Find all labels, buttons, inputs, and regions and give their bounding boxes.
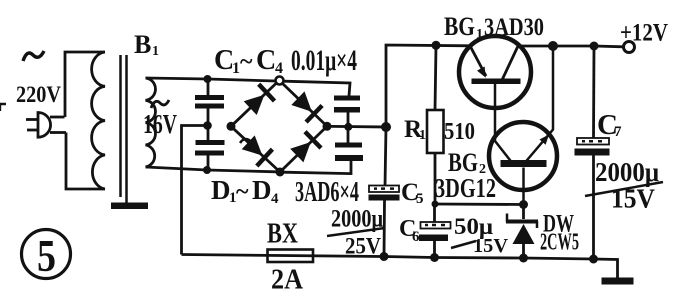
- transformer B1 secondary winding: [146, 78, 156, 167]
- capacitor C2: [207, 126, 210, 141]
- transistor BG2 base bar: [501, 160, 547, 167]
- svg-text:5: 5: [37, 230, 56, 281]
- wire plug to primary top terminal: [50, 116, 65, 119]
- zener diode DW: [522, 205, 525, 220]
- node C7 bottom: [589, 255, 598, 264]
- node R1/C6 junction: [432, 201, 439, 208]
- svg-text:+12V: +12V: [620, 18, 668, 47]
- node bottom cap junction: [203, 166, 211, 174]
- bridge edge top-right wire: [282, 83, 327, 126]
- svg-text:4: 4: [271, 191, 279, 207]
- capacitor C4: [347, 127, 350, 143]
- node riser junction: [381, 122, 391, 132]
- AC source tilde symbol: [23, 51, 44, 61]
- svg-text:4: 4: [275, 60, 283, 77]
- fraction bar C7: [585, 182, 663, 196]
- svg-text:BX: BX: [267, 219, 298, 250]
- wire bridge top node to C3: [284, 81, 351, 96]
- transistor BG1 base bar: [472, 79, 521, 85]
- terminal +12V: [624, 42, 635, 53]
- node C5 bottom: [380, 252, 389, 261]
- svg-text:6: 6: [412, 229, 420, 245]
- svg-text:15V: 15V: [611, 184, 655, 214]
- svg-text:2A: 2A: [271, 265, 303, 296]
- transistor BG2 emitter wire from BG1 collector rail: [525, 46, 553, 163]
- node bridge right: [323, 122, 332, 131]
- scan artifact left edge: [0, 104, 6, 111]
- transistor BG1 emitter: [470, 46, 486, 76]
- svg-text:15V: 15V: [473, 236, 508, 257]
- fuse BX: [268, 250, 314, 263]
- diode D1: [244, 95, 265, 115]
- node C6 bottom: [430, 253, 439, 262]
- transformer B1 primary winding: [65, 52, 105, 189]
- svg-text:1: 1: [152, 44, 159, 59]
- secondary tilde symbol: [151, 100, 169, 108]
- capacitor C3: [334, 96, 360, 101]
- transistor BG1 collector: [503, 46, 519, 79]
- transistor BG2 circle: [489, 122, 557, 190]
- bottom negative rail: [182, 255, 618, 279]
- capacitor C6: [433, 204, 436, 222]
- svg-text:1: 1: [419, 128, 426, 143]
- bridge edge left-top wire: [231, 83, 277, 127]
- node top cap junction: [204, 75, 212, 83]
- fraction bar C6: [451, 241, 476, 248]
- wire R1 bottom to zener node: [435, 203, 524, 206]
- wire positive riser and top rail: [386, 45, 470, 127]
- node zener bottom: [519, 254, 528, 263]
- resistor R1: [435, 45, 436, 110]
- svg-text:7: 7: [614, 124, 622, 140]
- node bridge top (open): [276, 77, 284, 85]
- node BG2 emitter junction: [548, 41, 558, 51]
- svg-text:1: 1: [476, 27, 483, 42]
- node bridge left: [227, 122, 236, 131]
- svg-text:3AD6×4: 3AD6×4: [295, 177, 359, 208]
- diode D2: [291, 91, 312, 111]
- svg-text:D: D: [252, 175, 272, 205]
- plug prong lower: [27, 129, 38, 132]
- bridge edge bottom-right wire: [280, 126, 327, 172]
- wire BG1 base to BG2 collector: [495, 84, 512, 162]
- svg-text:5: 5: [416, 191, 424, 207]
- svg-text:BG: BG: [444, 12, 475, 41]
- svg-text:510: 510: [444, 119, 475, 145]
- plug P1 body: [38, 113, 51, 138]
- figure number circle 5: [22, 230, 71, 279]
- capacitor C1: [207, 79, 210, 96]
- node R1 top junction: [432, 41, 441, 50]
- svg-text:2CW5: 2CW5: [540, 229, 579, 256]
- svg-text:B: B: [134, 30, 151, 59]
- node bridge bottom: [276, 168, 285, 177]
- svg-text:16V: 16V: [143, 109, 177, 139]
- wire plug to primary bottom terminal: [50, 131, 66, 134]
- node left mid junction: [203, 121, 212, 130]
- transistor BG2 base lead: [522, 168, 525, 205]
- ground (transformer core): [111, 203, 148, 210]
- wire negative branch from mid junction down: [182, 126, 208, 255]
- svg-text:D: D: [211, 175, 231, 205]
- node C7 top junction: [590, 42, 599, 51]
- svg-text:1: 1: [232, 60, 240, 77]
- diode D3 scribble: [240, 139, 251, 146]
- svg-text:2000μ: 2000μ: [595, 157, 659, 187]
- transformer B1 core: [121, 55, 127, 203]
- fraction bar C5: [327, 228, 385, 236]
- node zener top junction: [519, 200, 528, 209]
- svg-text:0.01μ×4: 0.01μ×4: [291, 44, 357, 77]
- wire BG1 collector to +12V: [518, 45, 624, 49]
- svg-text:~: ~: [236, 179, 249, 205]
- capacitor C5: [385, 127, 386, 186]
- wire bridge right node to riser: [331, 125, 386, 128]
- diode D4: [290, 142, 311, 162]
- svg-text:220V: 220V: [16, 82, 61, 107]
- node C3/C4 junction: [344, 123, 352, 131]
- svg-text:3AD30: 3AD30: [484, 14, 544, 41]
- wire secondary bottom to bridge bottom: [146, 167, 277, 172]
- transistor BG1 circle: [459, 36, 531, 108]
- bridge edge left-bottom wire: [231, 126, 280, 172]
- svg-text:~: ~: [240, 49, 253, 75]
- svg-text:C: C: [256, 45, 276, 76]
- plug prong upper: [26, 118, 38, 121]
- diode D3: [242, 135, 263, 155]
- wire C4 bottom to bridge bottom wire: [283, 161, 351, 174]
- capacitor C7: [592, 46, 595, 139]
- ground (output): [602, 278, 634, 285]
- wire secondary top to bridge top: [146, 78, 276, 81]
- svg-text:3DG12: 3DG12: [435, 173, 496, 203]
